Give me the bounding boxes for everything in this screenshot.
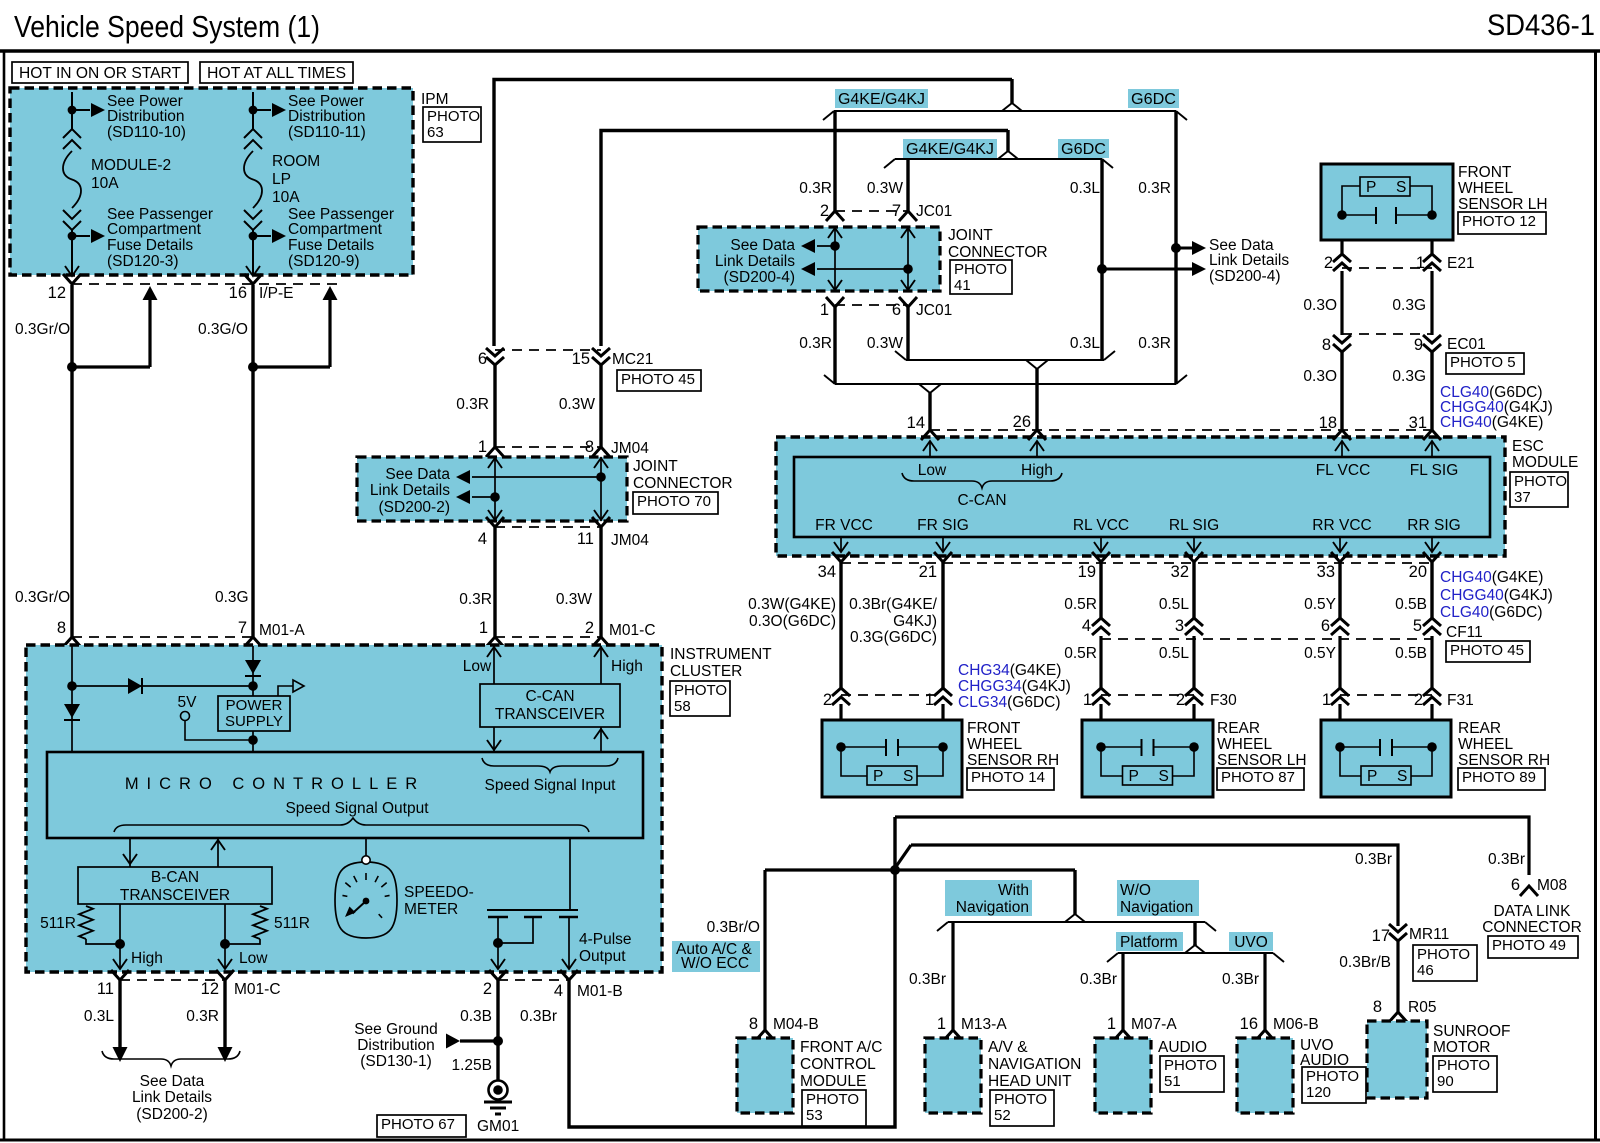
svg-text:FRONT A/C: FRONT A/C [800,1039,882,1056]
wire bus to MR11 [911,845,1398,926]
svg-text:(SD130-1): (SD130-1) [360,1053,432,1070]
svg-text:PHOTO: PHOTO [1417,946,1470,963]
ESC module box [776,437,1505,556]
connector M08 pin 6 [1520,886,1538,896]
svg-text:0.3Br/O: 0.3Br/O [707,919,760,936]
wire 0.5R CF11 to sensor RL pin1 [1099,636,1102,688]
arrow to See Power Distribution (SD110-11) [272,103,286,117]
label G4KE/G4KJ [835,89,928,108]
svg-text:1: 1 [478,438,487,456]
svg-text:34: 34 [818,563,836,581]
svg-text:0.3G: 0.3G [1392,368,1426,385]
wire sensor LH pin2 [1340,240,1343,254]
svg-text:G4KE/G4KJ: G4KE/G4KJ [838,91,925,108]
svg-text:2: 2 [1324,254,1333,272]
bus split G4KE/G4KJ / G6DC [1010,79,1013,103]
wire 4-pulse to pin 4 [568,917,570,969]
connector M01-C pin 11 [111,970,129,980]
connector ESC pin 20 [1423,552,1441,562]
wire 0.3Br/B MR11 to R05 [1396,941,1399,1012]
svg-text:EC01: EC01 [1447,336,1486,353]
svg-text:0.3O(G6DC): 0.3O(G6DC) [749,613,836,630]
pin line CF11 [1101,638,1432,640]
wire cluster pin1 to C-CAN transceiver [493,646,495,684]
rear wheel sensor RH box [1338,704,1341,720]
wire 0.3B pin2 to ground [496,980,499,1080]
svg-text:CHGG34(G4KJ): CHGG34(G4KJ) [958,678,1071,695]
svg-text:SD436-1: SD436-1 [1487,9,1595,42]
svg-text:(SD200-4): (SD200-4) [724,269,796,286]
svg-text:63: 63 [427,124,444,141]
wire 0.3O E21 to EC01 [1340,271,1343,335]
svg-text:CONNECTOR: CONNECTOR [1482,919,1582,936]
connector M04-B pin 8 [756,1030,774,1040]
wire bus G4KE/G4KJ top [494,80,1012,347]
module M04-B box [737,1038,793,1113]
svg-text:R05: R05 [1408,999,1436,1016]
svg-text:21: 21 [919,563,937,581]
wire bus navigation branch [765,868,1075,871]
JC01 link line to near wire [817,245,835,247]
connector ESC pin 14 [921,430,939,440]
svg-text:JM04: JM04 [611,532,649,549]
connector F31 pin 2 [1423,688,1441,705]
svg-text:M01-B: M01-B [577,983,623,1000]
svg-text:(SD110-10): (SD110-10) [107,124,186,141]
wire 0.3R branch1 to JC01 pin2 [833,111,836,211]
JC01 internal wire right [907,227,909,291]
svg-text:GM01: GM01 [477,1118,519,1135]
svg-text:10A: 10A [91,175,119,192]
svg-text:JC01: JC01 [916,302,952,319]
svg-text:High: High [611,658,643,675]
connector EC01 pin 9 [1423,335,1441,352]
svg-text:MODULE: MODULE [800,1073,866,1090]
wire 0.3G E21 to EC01 [1430,271,1433,335]
svg-text:0.3R: 0.3R [1138,335,1171,352]
pin line JM04 top [495,446,601,448]
svg-text:M01-A: M01-A [259,622,305,639]
svg-text:8: 8 [57,619,66,637]
front wheel sensor RH box [839,704,842,720]
wire 0.5Y CF11 to sensor RR pin1 [1338,636,1341,688]
connector M01-C pin 2 [592,637,610,647]
svg-text:PHOTO: PHOTO [427,108,480,125]
svg-text:REAR: REAR [1458,720,1501,737]
wire 0.5B CF11 to sensor RR pin2 [1430,636,1433,688]
svg-text:C-CAN: C-CAN [525,688,574,705]
wire 0.3W JC01 to collector [906,307,909,360]
diode D1 down on pin7 wire [245,660,261,674]
svg-text:MOTOR: MOTOR [1433,1039,1490,1056]
svg-text:16: 16 [229,284,247,302]
wire 0.3W/0.3O ESC pin34 to sensor FR RH pin2 [839,562,842,688]
svg-text:11: 11 [97,980,114,998]
svg-text:0.3R: 0.3R [186,1008,219,1025]
instrument cluster box [26,645,662,972]
svg-text:IPM: IPM [421,91,449,108]
svg-text:6: 6 [1321,617,1330,635]
svg-text:0.3R: 0.3R [799,335,832,352]
svg-text:1: 1 [925,691,934,709]
svg-text:P: P [1367,768,1377,785]
svg-text:0.3Gr/O: 0.3Gr/O [15,589,70,606]
svg-text:0.3L: 0.3L [1070,335,1101,352]
svg-text:Low: Low [239,950,268,967]
svg-text:33: 33 [1317,563,1335,581]
pin line F31 [1340,694,1432,696]
wire 0.3R branch1 down (G6DC) [1174,111,1177,384]
svg-text:7: 7 [238,619,247,637]
svg-text:PHOTO 12: PHOTO 12 [1462,213,1536,230]
pin line JM04 bottom [495,526,601,528]
svg-text:PHOTO: PHOTO [1164,1057,1217,1074]
connector M01-B pin 2 [489,970,507,980]
svg-text:FL VCC: FL VCC [1316,462,1371,479]
svg-text:M04-B: M04-B [773,1016,819,1033]
connector E21 pin 1 [1423,254,1441,271]
svg-text:S: S [1159,768,1169,785]
svg-text:P: P [873,768,883,785]
svg-text:Platform: Platform [1120,934,1178,951]
svg-text:E21: E21 [1447,255,1475,272]
svg-text:CONNECTOR: CONNECTOR [948,244,1048,261]
svg-text:6: 6 [1511,876,1520,894]
svg-text:32: 32 [1171,563,1189,581]
svg-text:52: 52 [994,1107,1011,1124]
svg-text:Link Details: Link Details [370,482,450,499]
svg-text:C-CAN: C-CAN [957,492,1006,509]
wire 0.5R ESC pin19 to CF11 pin4 [1099,562,1102,618]
svg-text:CONTROL: CONTROL [800,1056,876,1073]
pin line ESC top [930,429,1432,431]
branch line 2 (G4KE/G4KJ - G6DC) [895,158,1102,160]
pin line JC01 top [835,210,908,212]
svg-text:2: 2 [585,619,594,637]
svg-text:PHOTO 14: PHOTO 14 [971,769,1045,786]
svg-text:W/O: W/O [1120,882,1151,899]
connector FR RH pin 1 [934,688,952,705]
arrow to See Passenger Compartment Fuse Details (SD120-9) [272,229,286,243]
joint connector JM04 box [357,457,627,521]
wire 0.3W JM04 to cluster pin2 [599,527,602,637]
svg-text:MODULE-2: MODULE-2 [91,157,171,174]
connector ESC pin 26 [1028,430,1046,440]
svg-text:6: 6 [892,301,901,319]
speedometer gauge [335,862,397,938]
junction to data link details arrows [1171,243,1181,253]
pin line EC01 [1342,333,1432,335]
svg-text:JC01: JC01 [916,203,952,220]
svg-text:CONNECTOR: CONNECTOR [633,475,733,492]
svg-text:1.25B: 1.25B [451,1057,492,1074]
ESC output arrows [840,537,842,552]
svg-text:0.3Br(G4KE/: 0.3Br(G4KE/ [849,596,938,613]
connector M01-C pin 1 [486,637,504,647]
svg-text:B-CAN: B-CAN [151,869,199,886]
svg-text:0.3R: 0.3R [799,180,832,197]
svg-text:CHGG40(G4KJ): CHGG40(G4KJ) [1440,587,1553,604]
svg-text:51: 51 [1164,1073,1181,1090]
svg-text:16: 16 [1240,1015,1258,1033]
collector line to ESC pin 26 [906,359,1104,361]
svg-text:1: 1 [1416,254,1425,272]
wire 0.3R MC21 to JM04 [493,365,496,447]
svg-text:See Data: See Data [730,237,795,254]
svg-text:37: 37 [1514,489,1531,506]
svg-text:S: S [1396,179,1406,196]
svg-text:Output: Output [579,948,626,965]
wire WO navigation down [1193,922,1196,945]
JC01 internal wire left [834,227,836,291]
connector E21 pin 2 [1333,254,1351,271]
branch line With/WO Navigation [948,921,1205,923]
svg-text:MC21: MC21 [612,351,653,368]
ESC input arrows [929,441,931,457]
module M06-B box [1237,1038,1293,1113]
branch line 1 (G4KE/G4KJ - G6DC) [834,110,1176,112]
connector CF11 pin 3 [1185,618,1203,635]
svg-text:MICRO CONTROLLER: MICRO CONTROLLER [125,775,425,793]
fuse ROOM LP 10A [244,129,262,149]
svg-text:0.3Br: 0.3Br [1222,971,1259,988]
svg-text:0.5B: 0.5B [1395,596,1427,613]
svg-text:HOT IN ON OR START: HOT IN ON OR START [19,65,182,82]
wire 0.3Br/O to M04-B [763,870,766,1030]
connector JC01 pin 7 [899,211,917,221]
svg-text:FRONT: FRONT [967,720,1021,737]
svg-text:UVO: UVO [1234,934,1268,951]
label W/O Navigation [1117,880,1199,916]
svg-text:0.3B: 0.3B [460,1008,492,1025]
wire 0.5B ESC pin20 to CF11 pin5 [1430,562,1433,618]
svg-text:SUPPLY: SUPPLY [225,713,283,730]
svg-text:2: 2 [1176,691,1185,709]
brace speed signal output [114,818,589,832]
wire 0.3R JM04 to cluster pin1 [493,527,496,637]
svg-text:0.3O: 0.3O [1303,368,1337,385]
svg-text:Link Details: Link Details [132,1089,212,1106]
connector I/P-E pin 12 [63,274,81,284]
module M13-A box [925,1038,981,1113]
svg-text:FR SIG: FR SIG [917,517,969,534]
svg-text:PHOTO 45: PHOTO 45 [621,371,695,388]
connector MC21 pin 6 [486,348,504,365]
svg-text:4: 4 [478,530,487,548]
pin line JC01 bottom [835,304,908,306]
wire C-CAN to micro controller left [493,727,495,752]
svg-text:0.3G: 0.3G [1392,297,1426,314]
connector M13-A pin 1 [944,1030,962,1040]
svg-text:METER: METER [404,901,458,918]
svg-text:90: 90 [1437,1073,1454,1090]
svg-text:(SD120-9): (SD120-9) [288,253,360,270]
wire micro controller to B-CAN left [129,838,131,867]
svg-text:1: 1 [1107,1015,1116,1033]
svg-text:Navigation: Navigation [956,899,1029,916]
svg-text:Low: Low [918,462,947,479]
svg-text:0.3W: 0.3W [559,396,596,413]
wire 0.3L branch2 down [1100,159,1103,360]
svg-text:G4KE/G4KJ: G4KE/G4KJ [906,141,994,158]
JM04 link line to near wire [472,496,495,498]
svg-text:PHOTO 70: PHOTO 70 [637,493,711,510]
svg-text:2: 2 [823,691,832,709]
svg-text:18: 18 [1319,414,1337,432]
svg-text:4-Pulse: 4-Pulse [579,931,632,948]
connector F31 pin 1 [1331,688,1349,705]
connector CF11 pin 4 [1092,618,1110,635]
svg-text:9: 9 [1414,336,1423,354]
svg-text:SENSOR LH: SENSOR LH [1217,752,1307,769]
svg-text:See Data: See Data [140,1073,205,1090]
JM04 internal wire right [600,457,602,521]
brace see data link [102,1051,240,1066]
svg-text:0.5Y: 0.5Y [1304,645,1336,662]
wire sensor LH pin1 [1430,240,1433,254]
svg-text:1: 1 [820,301,829,319]
svg-text:4: 4 [554,982,563,1000]
wire fuse ROOM LP feed [252,92,254,130]
svg-text:CHG40(G4KE): CHG40(G4KE) [1440,414,1543,431]
label G6DC second [1058,139,1109,158]
connector M06-B pin 16 [1256,1030,1274,1040]
svg-text:WHEEL: WHEEL [1458,736,1514,753]
svg-text:PHOTO: PHOTO [806,1091,859,1108]
svg-text:Compartment: Compartment [107,221,202,238]
wire 0.3Br M01-B pin4 bottom run [569,817,895,1127]
svg-text:M13-A: M13-A [961,1016,1007,1033]
svg-text:PHOTO: PHOTO [954,261,1007,278]
svg-text:1: 1 [937,1015,946,1033]
svg-text:With: With [998,882,1029,899]
svg-text:See Data: See Data [385,466,450,483]
pin line FR RH [841,694,943,696]
svg-text:G6DC: G6DC [1131,91,1176,108]
svg-text:0.5L: 0.5L [1159,645,1190,662]
svg-text:W/O ECC: W/O ECC [681,955,749,972]
svg-text:0.3Br: 0.3Br [1355,851,1392,868]
svg-text:0.5B: 0.5B [1395,645,1427,662]
svg-text:ROOM: ROOM [272,153,320,170]
svg-text:(SD110-11): (SD110-11) [288,124,366,141]
svg-text:G4KJ): G4KJ) [893,613,937,630]
svg-text:8: 8 [1322,336,1331,354]
connector R05 pin 8 [1389,1012,1407,1022]
JM04 link line to far wire [472,476,601,478]
svg-text:M01-C: M01-C [234,981,281,998]
svg-text:Vehicle Speed System (1): Vehicle Speed System (1) [14,9,320,44]
svg-text:CLUSTER: CLUSTER [670,663,742,680]
svg-text:Link Details: Link Details [715,253,795,270]
wire 0.3Br to M06-B [1263,953,1266,1030]
arrow to See Power Distribution (SD110-10) [91,103,105,117]
navigation branch split [1073,870,1076,912]
svg-text:Navigation: Navigation [1120,899,1193,916]
svg-text:RL VCC: RL VCC [1073,517,1129,534]
svg-text:(SD120-3): (SD120-3) [107,253,179,270]
resistor 511R right [253,906,267,939]
svg-text:0.3R: 0.3R [459,591,492,608]
cluster internal wire from pin 7 [252,646,254,696]
svg-text:FR VCC: FR VCC [815,517,873,534]
module M07-A box [1095,1038,1151,1113]
connector ESC pin 33 [1331,552,1349,562]
svg-text:5: 5 [1413,617,1422,635]
resistor 511R left [79,906,93,939]
svg-text:JM04: JM04 [611,440,649,457]
branch arrow up-left [67,362,77,372]
svg-text:2: 2 [1414,691,1423,709]
svg-text:0.3G/O: 0.3G/O [198,321,248,338]
svg-text:INSTRUMENT: INSTRUMENT [670,646,772,663]
svg-text:DATA LINK: DATA LINK [1494,903,1572,920]
svg-text:AUDIO: AUDIO [1158,1039,1207,1056]
svg-text:High: High [1021,462,1053,479]
svg-text:(SD200-4): (SD200-4) [1209,268,1281,285]
JC01 link line to far wire [817,268,908,270]
svg-text:G6DC: G6DC [1061,141,1106,158]
wire below fuse MODULE-2 [71,230,73,276]
pin line ESC bottom [841,562,1432,564]
svg-text:CLG40(G6DC): CLG40(G6DC) [1440,604,1543,621]
wire diagonal to MR11 bus [895,845,911,868]
svg-text:A/V &: A/V & [988,1039,1028,1056]
svg-text:P: P [1366,179,1376,196]
wire 0.3G/O pin16 to cluster pin7 [251,285,254,637]
svg-text:PHOTO 45: PHOTO 45 [1450,642,1524,659]
pin line M01-B [498,979,569,981]
svg-text:19: 19 [1078,563,1096,581]
svg-text:20: 20 [1409,563,1427,581]
svg-text:Fuse Details: Fuse Details [288,237,374,254]
svg-text:15: 15 [572,350,590,368]
label Platform [1116,932,1183,951]
label HOT AT ALL TIMES [200,62,353,83]
svg-text:CF11: CF11 [1446,624,1483,641]
connector I/P-E pin 16 [244,274,262,284]
wire bus second level [601,131,1008,347]
svg-text:Low: Low [463,658,492,675]
svg-text:M07-A: M07-A [1131,1016,1177,1033]
wire fuse MODULE-2 feed [71,92,73,130]
svg-text:SUNROOF: SUNROOF [1433,1023,1511,1040]
wire below fuse ROOM LP [252,230,254,276]
svg-text:12: 12 [201,980,219,998]
svg-text:0.3Br: 0.3Br [909,971,946,988]
joint connector JC01 box [698,227,940,291]
wire 0.3R JC01 to collector [833,307,836,384]
svg-text:SENSOR RH: SENSOR RH [1458,752,1550,769]
svg-text:0.3R: 0.3R [1138,180,1171,197]
svg-text:SENSOR RH: SENSOR RH [967,752,1059,769]
wire 0.3R to data link [223,980,226,1048]
svg-text:8: 8 [1373,998,1382,1016]
branch arrow up-right [248,362,258,372]
svg-text:S: S [1397,768,1407,785]
wire C-CAN to micro controller right [600,727,602,752]
svg-text:CLG34(G6DC): CLG34(G6DC) [958,694,1061,711]
svg-text:0.5L: 0.5L [1159,596,1190,613]
svg-text:(SD200-2): (SD200-2) [136,1106,208,1123]
svg-text:0.3Br: 0.3Br [1080,971,1117,988]
svg-text:511R: 511R [274,915,310,932]
page border right [1594,51,1597,1141]
svg-text:TRANSCEIVER: TRANSCEIVER [120,887,230,904]
svg-text:MR11: MR11 [1409,926,1449,943]
connector ESC pin 18 [1333,430,1351,440]
svg-text:6: 6 [478,350,487,368]
